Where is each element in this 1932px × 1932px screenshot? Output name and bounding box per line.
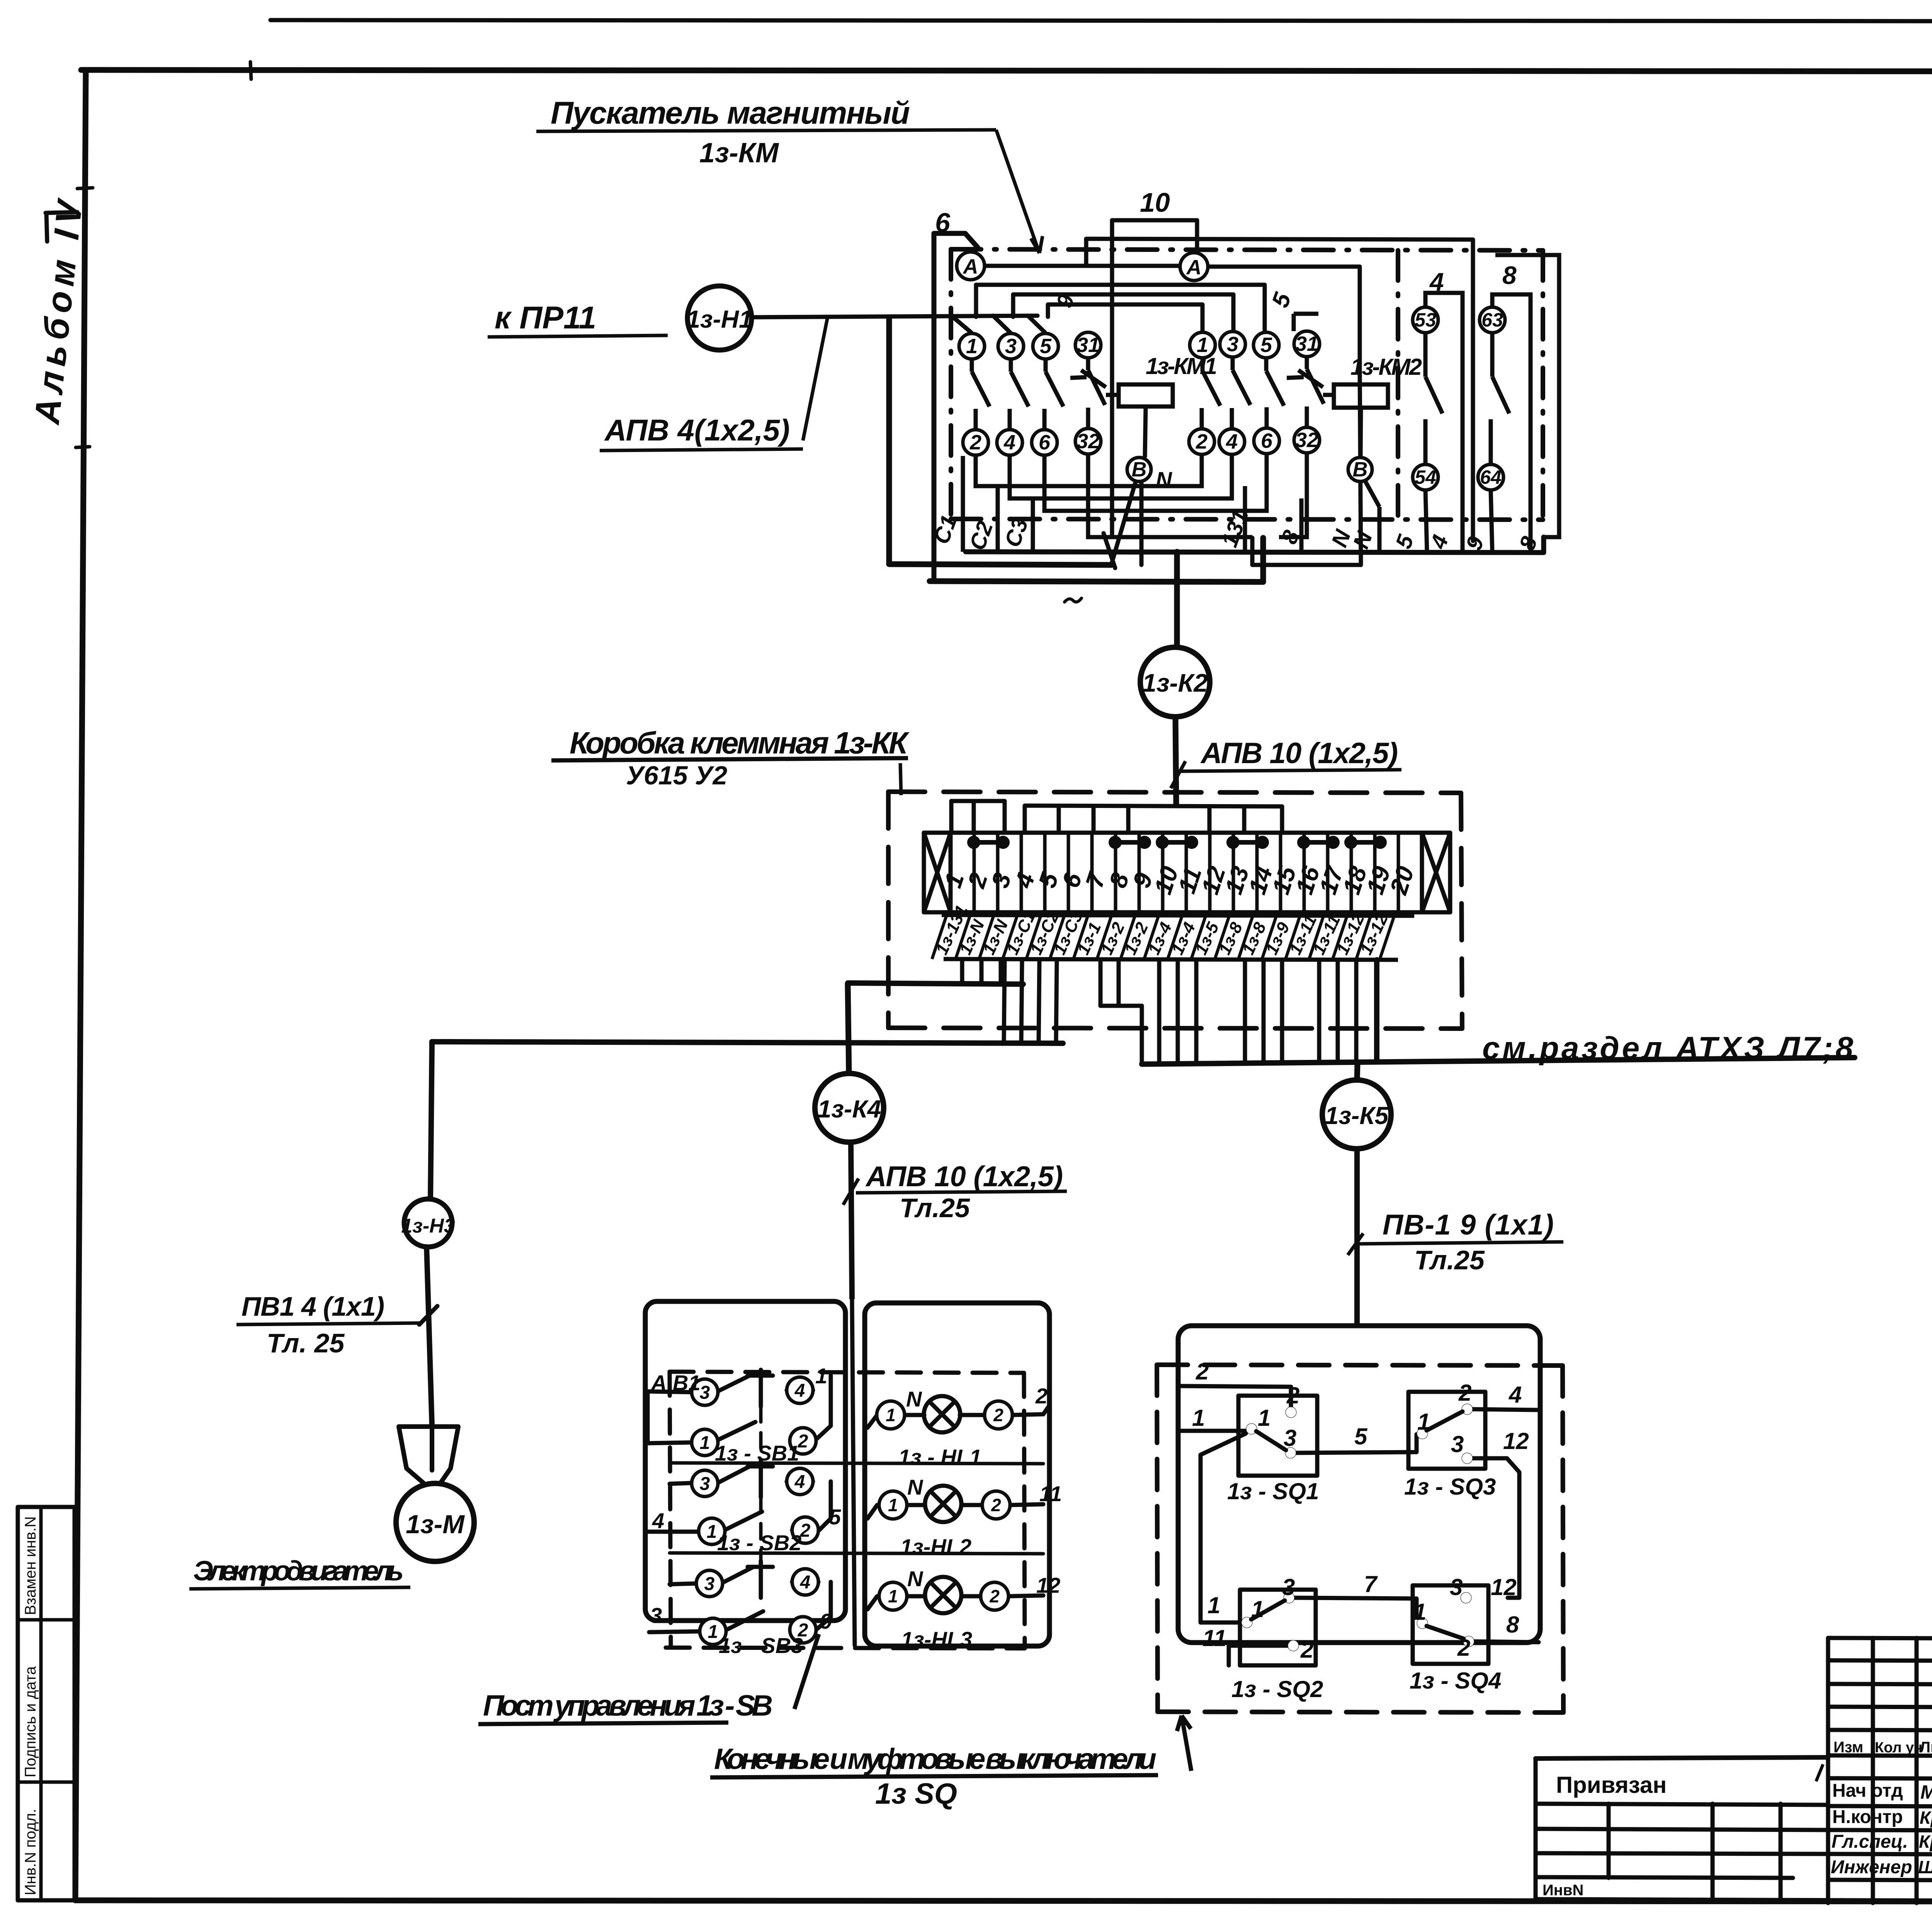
svg-text:B: B (1132, 458, 1147, 481)
svg-text:3: 3 (1282, 1574, 1295, 1600)
svg-text:8: 8 (1506, 1612, 1519, 1638)
pin 1 (959, 333, 985, 359)
left buttons box (645, 1301, 845, 1621)
terminal row box (924, 833, 1450, 912)
inner solid box bottom (966, 537, 1544, 553)
switch SQ3 (1417, 1428, 1428, 1439)
wire 4 (1473, 1409, 1539, 1410)
svg-text:4: 4 (652, 1509, 664, 1533)
svg-text:3: 3 (650, 1603, 662, 1628)
svg-text:1: 1 (1417, 1409, 1430, 1435)
svg-text:Тл.25: Тл.25 (900, 1193, 970, 1223)
wire drop T16 (1317, 960, 1321, 1062)
wire 2 bottom (1229, 1646, 1287, 1665)
wire stub (972, 801, 976, 833)
svg-text:N: N (906, 1387, 922, 1411)
svg-text:1: 1 (1207, 1592, 1220, 1618)
svg-text:2: 2 (1458, 1380, 1471, 1406)
jumper 10-11 (1162, 840, 1192, 845)
svg-text:2: 2 (989, 1586, 1000, 1606)
svg-text:1: 1 (700, 1433, 710, 1453)
bus to motor (432, 1042, 1063, 1043)
internal dash-dot divider (1396, 250, 1400, 519)
svg-text:1з-КМ: 1з-КМ (699, 138, 779, 168)
svg-text:N: N (907, 1475, 923, 1499)
svg-text:А В1: А В1 (650, 1371, 701, 1395)
svg-text:Кол уч: Кол уч (1875, 1740, 1922, 1756)
frame tick top (250, 62, 251, 79)
svg-text:Тл. 25: Тл. 25 (267, 1328, 345, 1358)
svg-text:4: 4 (794, 1381, 805, 1401)
wire from 1з-Н1 supply (752, 316, 1037, 317)
wire link to bus3 (1140, 1006, 1144, 1063)
drop C2 (996, 487, 1000, 552)
svg-text:Изм: Изм (1833, 1739, 1863, 1756)
svg-text:У615 У2: У615 У2 (626, 761, 727, 790)
svg-text:1з - SВ1: 1з - SВ1 (715, 1441, 799, 1465)
node 1з-К4 (815, 983, 884, 1299)
svg-text:1з - SВ2: 1з - SВ2 (717, 1531, 801, 1555)
svg-text:N: N (1156, 468, 1172, 493)
svg-text:2: 2 (1196, 430, 1207, 453)
svg-text:Коробка клеммная 1з-КК: Коробка клеммная 1з-КК (570, 726, 910, 760)
svg-text:53: 53 (1415, 309, 1436, 331)
drop C3 (1031, 499, 1035, 552)
svg-text:2: 2 (1286, 1383, 1299, 1408)
svg-text:АПВ 10 (1х2,5): АПВ 10 (1х2,5) (865, 1160, 1063, 1192)
jumper 18-19 (1351, 840, 1380, 845)
wire drop T9 (1117, 960, 1121, 1006)
svg-text:Крживанек: Крживанек (1919, 1832, 1932, 1852)
svg-text:2: 2 (1196, 1359, 1209, 1384)
pin 4 (997, 430, 1022, 455)
node 1з-Н1 (686, 286, 752, 350)
svg-text:Шахбанова: Шахбанова (1918, 1857, 1932, 1877)
top stub bus (951, 801, 1282, 833)
wire drop T17 (1336, 960, 1340, 1062)
svg-text:1з-Н1: 1з-Н1 (686, 305, 752, 333)
wire 1-11 left (1201, 1434, 1246, 1622)
pin 64 (1478, 464, 1503, 490)
bus sm.razdel (1142, 1058, 1855, 1064)
svg-text:5: 5 (1260, 333, 1272, 357)
pin 2 (963, 430, 988, 455)
row bus 1 (670, 1463, 1043, 1464)
button SB1 wiring (648, 1370, 831, 1443)
svg-text:8: 8 (1502, 261, 1517, 289)
svg-text:Пускатель магнитный: Пускатель магнитный (551, 95, 910, 131)
pin 3 (1220, 332, 1245, 357)
svg-text:3: 3 (1451, 1431, 1464, 1457)
button circles SB1 (692, 1377, 818, 1645)
svg-text:1: 1 (1192, 1405, 1205, 1431)
svg-text:4: 4 (1509, 1382, 1522, 1408)
wire 2 (1180, 1386, 1291, 1406)
svg-text:Взамен инв.N: Взамен инв.N (22, 1516, 39, 1615)
cable 4 bracket (1425, 293, 1463, 552)
album IV box (46, 212, 77, 241)
node A left (957, 252, 985, 280)
drawing frame left (75, 70, 86, 1900)
svg-text:2: 2 (1035, 1384, 1048, 1408)
left edge sig table (1826, 1638, 1830, 1903)
wire down to motor (430, 1042, 432, 1199)
svg-text:12: 12 (1503, 1428, 1529, 1454)
wire stub (1242, 806, 1247, 833)
wire drop T6 (1039, 960, 1039, 1043)
coil KM1 (1106, 384, 1173, 563)
svg-text:Молчанов: Молчанов (1920, 1781, 1932, 1803)
svg-text:ПВ1 4 (1х1): ПВ1 4 (1х1) (241, 1291, 384, 1321)
supply stub 1 (951, 316, 971, 332)
svg-text:64: 64 (1480, 466, 1502, 488)
wire U1 (976, 454, 1202, 486)
drawing frame top (81, 70, 1932, 72)
wire U4 (1088, 453, 1307, 537)
starter enclosure dash-dot box (951, 249, 1543, 520)
drawing frame bottom (75, 1900, 1932, 1902)
svg-text:54: 54 (1415, 466, 1436, 488)
lamp HL2 (867, 1504, 1043, 1519)
big middle solid rect (1086, 239, 1473, 541)
wire B1 drop (1139, 481, 1144, 565)
drop 8 (1299, 498, 1304, 552)
jumper 13-14 (1233, 840, 1262, 845)
svg-text:4: 4 (1429, 267, 1444, 296)
privyazan table (1536, 1757, 1828, 1759)
svg-text:3: 3 (1005, 335, 1017, 358)
cable 8 outer loop (1495, 255, 1559, 537)
svg-text:Тл.25: Тл.25 (1414, 1245, 1485, 1275)
wire A line (985, 266, 1360, 369)
wire stub (1207, 806, 1212, 833)
svg-text:31: 31 (1295, 332, 1318, 355)
svg-text:A: A (963, 255, 978, 278)
contact 63-64 (1491, 333, 1509, 464)
upper nest wire 3 (1048, 304, 1202, 330)
svg-text:6: 6 (1261, 429, 1273, 452)
wire stub (1092, 806, 1096, 833)
title block texts (1543, 1650, 1932, 1899)
wire N return (1252, 369, 1361, 565)
svg-text:3: 3 (704, 1574, 715, 1594)
svg-text:3: 3 (1450, 1574, 1463, 1600)
svg-text:1: 1 (1251, 1596, 1264, 1622)
signature squiggles (1816, 1764, 1932, 1876)
terminal dividers + numbers (974, 833, 1398, 912)
wire U3 (1044, 454, 1267, 511)
node 1з-К5 (1322, 1063, 1391, 1326)
svg-text:1: 1 (1413, 1599, 1426, 1625)
outer solid box (1178, 1326, 1540, 1643)
svg-text:2: 2 (1457, 1635, 1470, 1661)
bus to K4 (848, 983, 1023, 984)
top thin sheet line (270, 20, 1932, 22)
left contactor KM1 pins (957, 252, 1151, 481)
svg-text:4: 4 (1003, 431, 1015, 454)
left stamp column boxes (18, 1507, 75, 1900)
svg-text:1: 1 (708, 1622, 718, 1642)
wire B to bottom (1112, 480, 1136, 563)
jumper 8-9 (1115, 840, 1145, 845)
frame tick left 1 (77, 188, 93, 189)
pin 6 (1032, 430, 1057, 455)
svg-text:5: 5 (1354, 1423, 1368, 1449)
svg-text:6: 6 (935, 207, 951, 238)
svg-text:1з - SQ3: 1з - SQ3 (1404, 1474, 1496, 1500)
svg-text:B: B (1353, 458, 1368, 481)
wire drop T8 (1100, 960, 1142, 1006)
upper nest wire 1 (976, 285, 1265, 332)
pin 6 (1254, 428, 1279, 454)
svg-text:2: 2 (1300, 1637, 1313, 1663)
svg-text:к ПР11: к ПР11 (495, 300, 596, 335)
sig table verticals (1871, 1638, 1875, 1903)
svg-text:Подпись и дата: Подпись и дата (22, 1666, 39, 1777)
node B right (1348, 457, 1372, 481)
svg-text:Инв.N подл.: Инв.N подл. (22, 1809, 39, 1895)
supply stub 3 (993, 316, 1010, 332)
svg-text:1з-НL3: 1з-НL3 (901, 1627, 972, 1651)
wire drop T7 (1056, 960, 1057, 1043)
svg-text:2: 2 (993, 1405, 1003, 1425)
X box right (1422, 833, 1450, 912)
svg-text:Электродвигатель: Электродвигатель (193, 1556, 404, 1587)
dashed box (1157, 1365, 1563, 1713)
svg-text:ПВ-1 9 (1х1): ПВ-1 9 (1х1) (1383, 1209, 1554, 1241)
motor circle (396, 1483, 474, 1561)
svg-text:АПВ 10 (1х2,5): АПВ 10 (1х2,5) (1200, 737, 1398, 770)
jumper dumbbells (969, 838, 1384, 847)
pin 3 (998, 333, 1024, 359)
wire stub bus b (1025, 806, 1282, 833)
SQ4 box (1413, 1585, 1488, 1664)
node 1з-К2 (1140, 647, 1210, 717)
wire drop T2 (980, 960, 984, 984)
outer top (1828, 1638, 1932, 1640)
svg-text:1: 1 (888, 1586, 898, 1606)
wire drop T18 (1354, 960, 1359, 1062)
wire 5 (1296, 1434, 1417, 1453)
wire stub (1126, 806, 1131, 833)
svg-text:1з - SQ2: 1з - SQ2 (1231, 1676, 1323, 1702)
dashed inner box (666, 1372, 1025, 1648)
svg-text:Лист: Лист (1920, 1739, 1932, 1756)
button circles SB2 (692, 1470, 718, 1497)
pin 31 (1075, 332, 1101, 358)
cable 10 bracket (1112, 220, 1197, 267)
svg-text:1: 1 (1197, 333, 1208, 357)
MAIN LABELS (488, 95, 1043, 451)
wire stub (1057, 806, 1061, 833)
svg-text:АПВ 4(1х2,5): АПВ 4(1х2,5) (604, 413, 790, 447)
svg-text:1: 1 (966, 335, 978, 358)
svg-text:3: 3 (1227, 333, 1238, 356)
squiggle mark (1065, 598, 1082, 602)
svg-text:1: 1 (815, 1364, 827, 1388)
pin 32 (1294, 427, 1320, 453)
wire drop T15 (1280, 960, 1284, 1063)
svg-text:5: 5 (829, 1505, 841, 1529)
wires below KK box (432, 960, 1855, 1064)
switch SQ1 (1246, 1423, 1257, 1434)
svg-text:Инженер: Инженер (1831, 1857, 1912, 1878)
contact arms KM1 (972, 358, 1106, 430)
svg-text:10: 10 (1140, 187, 1170, 218)
svg-text:1з - SQ1: 1з - SQ1 (1227, 1478, 1319, 1504)
pin 32 (1075, 429, 1101, 454)
svg-text:11: 11 (1039, 1481, 1062, 1506)
pin 5 (1253, 332, 1279, 358)
svg-text:4: 4 (794, 1472, 805, 1492)
svg-text:Привязан: Привязан (1556, 1772, 1667, 1798)
svg-text:1з-Н3: 1з-Н3 (401, 1215, 455, 1237)
svg-text:Н.контр: Н.контр (1832, 1807, 1903, 1827)
coil aux contact KM2 (1287, 370, 1323, 387)
wire drop T13 (1243, 960, 1247, 1063)
coil KM2 (1323, 384, 1388, 507)
motor cable gland (399, 1427, 458, 1483)
svg-text:1з-НL2: 1з-НL2 (900, 1534, 971, 1559)
pin 54 (1413, 464, 1438, 490)
svg-text:1з-КМ2: 1з-КМ2 (1350, 354, 1422, 380)
supply stub 5 (1028, 316, 1045, 332)
node A right (1180, 253, 1208, 281)
lamp HL1 (867, 1406, 1049, 1428)
cable 8 bracket (1492, 294, 1531, 552)
svg-text:12: 12 (1036, 1573, 1060, 1597)
wire 7 (1295, 1598, 1417, 1617)
wire U2 (1010, 454, 1232, 498)
wire bottom bus a (930, 538, 1263, 582)
wire 1 (1180, 1429, 1246, 1433)
svg-text:Пост управления 1з - SВ: Пост управления 1з - SВ (483, 1689, 773, 1722)
leader to starter box (996, 130, 1043, 253)
upper nest wire 2 (1013, 294, 1233, 330)
wire stub bus a (951, 801, 1005, 833)
wire drop T11 (1176, 960, 1180, 1064)
sig table rows (1828, 1660, 1932, 1661)
coil aux contact (1070, 370, 1106, 387)
svg-text:1з - SВ3: 1з - SВ3 (719, 1633, 803, 1658)
button SB2 wiring (648, 1461, 831, 1532)
button circles SB3 (696, 1570, 723, 1597)
right contactor KM2 pins (1180, 253, 1372, 481)
svg-text:2: 2 (991, 1495, 1001, 1515)
wire drop T3 (999, 960, 1003, 984)
cable tick slash (1104, 533, 1115, 568)
svg-text:N: N (907, 1566, 923, 1591)
SQ3 box (1408, 1392, 1485, 1469)
wire 64 exit (1491, 490, 1492, 552)
wire H1 drop (889, 317, 1111, 565)
KK dashed box (888, 792, 1462, 1029)
pin 31 (1294, 331, 1320, 357)
bottom slanted wire labels (929, 507, 1542, 553)
wire K2 to KK box (1175, 717, 1176, 806)
svg-text:5: 5 (1040, 335, 1052, 358)
X box left (924, 833, 951, 912)
drop 131 (1243, 486, 1247, 552)
svg-text:Конечные и муфтовые выключате: Конечные и муфтовые выключатели (714, 1743, 1156, 1776)
center wire through (852, 1299, 855, 1645)
wire drop T10 (1157, 960, 1162, 1064)
jumper 2-3 (974, 840, 1003, 845)
bottom of title block (1536, 1900, 1932, 1903)
svg-text:6: 6 (1039, 431, 1051, 454)
pin 53 (1413, 307, 1438, 333)
svg-text:3: 3 (1284, 1425, 1296, 1451)
svg-text:ИнвN: ИнвN (1543, 1882, 1583, 1899)
cable tick (419, 1306, 437, 1325)
pin 5 (1033, 333, 1058, 359)
wire 12 right (1473, 1458, 1519, 1598)
SQ2 box (1240, 1590, 1316, 1665)
svg-text:4: 4 (1226, 430, 1238, 453)
svg-text:Нач отд: Нач отд (1832, 1781, 1903, 1801)
SQ1 box (1238, 1396, 1317, 1476)
wire drop T12 (1194, 960, 1199, 1063)
svg-text:1з - НL1: 1з - НL1 (898, 1445, 981, 1469)
svg-text:Гл.спец.: Гл.спец. (1832, 1832, 1908, 1852)
svg-text:4: 4 (800, 1572, 811, 1593)
svg-text:11: 11 (1202, 1625, 1226, 1651)
button SB1 dashed stem (759, 1406, 763, 1495)
svg-text:A: A (1186, 256, 1202, 279)
svg-text:1: 1 (886, 1405, 896, 1425)
svg-text:32: 32 (1295, 429, 1318, 452)
drop C1 (961, 456, 965, 552)
wire to K2 (1174, 552, 1180, 648)
svg-text:1з SQ: 1з SQ (875, 1777, 957, 1810)
contact 53-54 (1425, 333, 1442, 464)
pin 2 (1189, 429, 1214, 454)
node B left (1127, 457, 1151, 481)
wire-label strip below terminals (942, 915, 1414, 960)
svg-text:1: 1 (707, 1522, 717, 1542)
lower nest wires (963, 453, 1307, 552)
svg-text:2: 2 (969, 431, 981, 454)
node 5 bracket (1294, 314, 1318, 331)
svg-text:3: 3 (700, 1474, 710, 1494)
svg-text:3: 3 (700, 1383, 710, 1403)
svg-text:1: 1 (1258, 1405, 1270, 1431)
wire drop T19 (1374, 960, 1379, 1062)
svg-text:32: 32 (1077, 430, 1100, 453)
lamps HL1-3 (867, 1396, 1049, 1613)
pin 4 (1219, 429, 1245, 454)
svg-text:1з - SQ4: 1з - SQ4 (1410, 1668, 1501, 1694)
switch SQ2 (1242, 1617, 1252, 1628)
button SB3 wiring (649, 1561, 831, 1632)
svg-text:1з-М: 1з-М (406, 1510, 465, 1539)
wire drop T14 (1262, 960, 1266, 1063)
wire 54 exit (1425, 490, 1427, 552)
pin 63 (1480, 307, 1505, 333)
svg-text:1: 1 (888, 1495, 898, 1515)
right lamps box (865, 1303, 1049, 1646)
frame tick left 2 (76, 447, 90, 447)
wire 8 (1475, 1641, 1539, 1642)
svg-text:1з-К2: 1з-К2 (1142, 668, 1208, 697)
pin 1 (1190, 332, 1215, 358)
contact arms KM2 (1202, 357, 1324, 429)
svg-text:1з-К4: 1з-К4 (818, 1095, 881, 1123)
wire drop T1 (960, 960, 964, 984)
svg-text:7: 7 (1364, 1571, 1378, 1597)
svg-text:1з-К5: 1з-К5 (1325, 1102, 1389, 1129)
aux section 53/54 63/64 (1413, 307, 1505, 490)
